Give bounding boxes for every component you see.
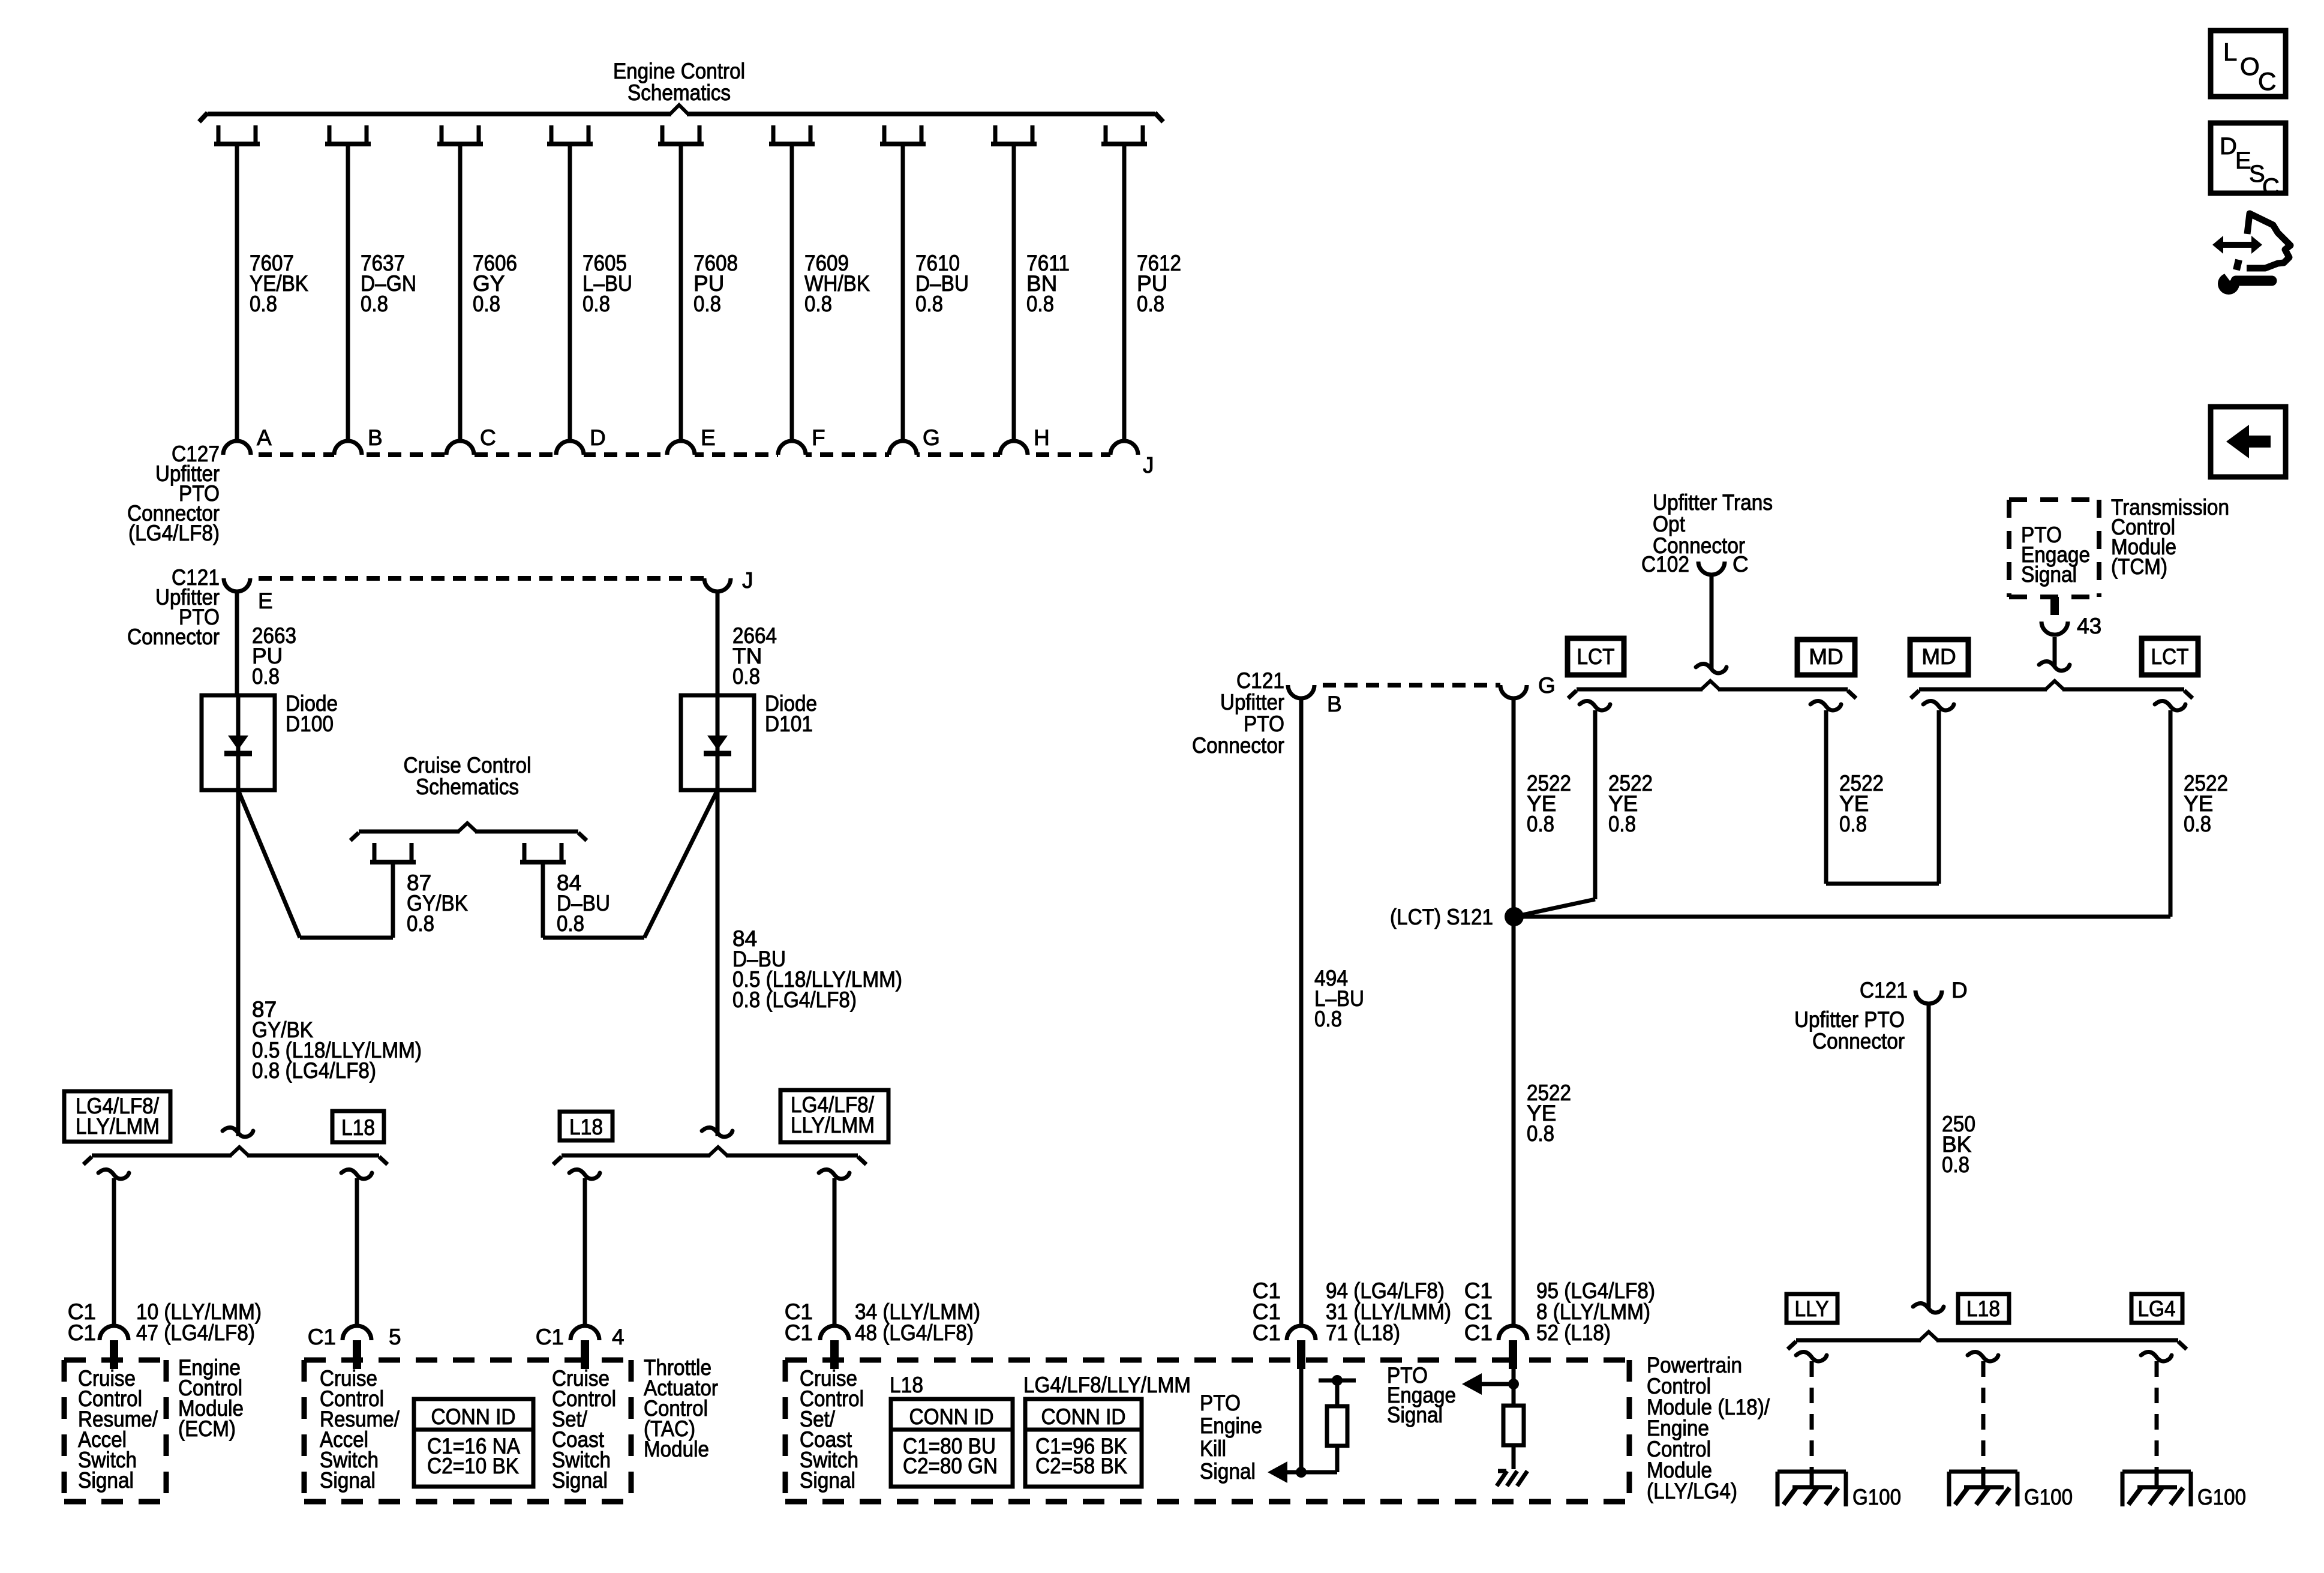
svg-text:L18: L18 (1966, 1296, 2000, 1321)
brace ECM split (92, 1154, 232, 1158)
wire segment 87 diagonal to D100 (238, 790, 300, 938)
svg-text:(ECM): (ECM) (178, 1416, 236, 1441)
wire end curl above left brace (223, 1127, 253, 1137)
dashed box PTO engage signal (TCM) (2009, 497, 2099, 502)
icon DESC box (2211, 123, 2286, 193)
svg-text:PTO: PTO (1244, 712, 1284, 736)
svg-text:0.8: 0.8 (473, 292, 500, 316)
svg-text:PTO: PTO (1200, 1391, 1241, 1415)
kill signal arrow (1268, 1461, 1287, 1483)
svg-text:J: J (1143, 453, 1154, 478)
C127 pin bump H (1000, 441, 1028, 459)
pin stub 47/10 (110, 1340, 118, 1369)
pin stub 4 (581, 1340, 589, 1369)
svg-text:0.8 (LG4/LF8): 0.8 (LG4/LF8) (252, 1058, 376, 1083)
svg-text:E: E (701, 425, 716, 450)
svg-text:0.8: 0.8 (1839, 812, 1867, 836)
CONN ID box (TAC) (414, 1399, 533, 1487)
svg-text:A: A (257, 425, 272, 450)
wire to pin 5 (355, 1178, 359, 1327)
brace upfitter trans opt (1577, 688, 1703, 692)
box LG4 (2131, 1294, 2182, 1323)
svg-text:CONN ID: CONN ID (909, 1404, 994, 1429)
C121 connector dashed line (right) (1301, 683, 1514, 688)
icon wrench (2218, 273, 2239, 295)
svg-text:Engine: Engine (1200, 1413, 1262, 1438)
svg-text:0.8: 0.8 (1527, 812, 1554, 836)
engine box L18 (left) (332, 1111, 384, 1142)
svg-text:0.8: 0.8 (361, 292, 388, 316)
svg-text:71 (L18): 71 (L18) (1326, 1320, 1400, 1345)
wire 2664 TN 0.8 (716, 592, 720, 695)
svg-text:B: B (368, 425, 383, 450)
wire 7612 PU 0.8 (pin J) (1122, 144, 1127, 442)
stub curl LCT1 (1580, 701, 1610, 710)
wire to pin 5 curl (341, 1169, 372, 1179)
engage arrow (1462, 1373, 1482, 1395)
svg-text:LCT: LCT (2151, 644, 2189, 669)
wire 84 below D101 (716, 790, 720, 1136)
svg-text:4: 4 (612, 1325, 624, 1349)
ground G100 (LLY) (1777, 1470, 1846, 1474)
bracket to engine control schematics (wire J) (1104, 125, 1108, 144)
svg-text:(LLY/LG4): (LLY/LG4) (1647, 1479, 1737, 1503)
wire 2522 YE 0.8 (G to S121 to pin) (1512, 698, 1516, 1327)
cruise control brace (359, 830, 460, 834)
dashed wire to G100 (L18) (1981, 1361, 1986, 1470)
svg-text:C: C (2258, 67, 2276, 95)
svg-text:C121: C121 (1860, 978, 1908, 1002)
C121 connector dashed line (left) (237, 576, 717, 581)
wire 7607 YE/BK 0.8 (pin A) (235, 144, 239, 442)
pin stub 71 (1297, 1340, 1305, 1369)
wire curl above right brace (2039, 661, 2070, 671)
svg-text:43: 43 (2077, 614, 2101, 638)
ground G100 (L18) (1949, 1470, 2017, 1474)
C127 pin bump A (223, 441, 251, 459)
svg-text:Kill: Kill (1200, 1436, 1226, 1461)
C121 pin bump E (224, 574, 250, 592)
svg-text:52 (L18): 52 (L18) (1536, 1320, 1611, 1345)
svg-text:C: C (1733, 552, 1749, 577)
svg-text:(TCM): (TCM) (2111, 554, 2167, 579)
C127 pin bump D (556, 441, 584, 459)
svg-text:Schematics: Schematics (627, 80, 731, 105)
bracket to engine control schematics (wire B) (328, 125, 332, 144)
brace grounds (1796, 1338, 1921, 1343)
floating bar (kill) (1319, 1379, 1356, 1383)
svg-text:G100: G100 (2197, 1485, 2246, 1509)
C121 pin bump D (1915, 986, 1942, 1004)
pin stub 52 (1509, 1340, 1517, 1369)
svg-text:MD: MD (1921, 644, 1956, 669)
C121 pin bump B (1288, 681, 1314, 698)
wire LCT2 stub to S121 line (2169, 710, 2173, 917)
pin bump 47/10 (100, 1326, 128, 1344)
svg-text:Signal: Signal (800, 1468, 855, 1493)
svg-text:Engine Control: Engine Control (613, 59, 745, 83)
dashed box cruise control switches (TAC) (304, 1358, 631, 1363)
svg-text:0.8: 0.8 (1942, 1152, 1969, 1177)
splice S121 dot (1505, 907, 1524, 926)
box LCT (second) (2142, 638, 2198, 675)
svg-text:D: D (590, 425, 606, 450)
wire 250 BK 0.8 (1927, 1004, 1931, 1308)
dashed box cruise control resume/accel switch signal (ECM) (64, 1358, 166, 1363)
svg-text:(LG4/LF8): (LG4/LF8) (128, 521, 220, 545)
resistor (engage) (1503, 1406, 1524, 1445)
stub curl ground LG4 (2141, 1352, 2172, 1361)
svg-text:C2=10 BK: C2=10 BK (427, 1454, 519, 1478)
svg-text:Connector: Connector (1812, 1029, 1905, 1053)
svg-text:C: C (480, 425, 496, 450)
bracket to cruise control (87 wire) (373, 843, 377, 860)
svg-text:Opt: Opt (1653, 512, 1686, 536)
svg-text:CONN ID: CONN ID (1041, 1404, 1126, 1429)
svg-text:0.8: 0.8 (250, 292, 277, 316)
brace TCM split (1919, 688, 2047, 692)
engine box LG4/LF8/LLY/LMM (left) (64, 1091, 170, 1142)
box LLY (1786, 1294, 1837, 1323)
svg-text:5: 5 (389, 1325, 401, 1349)
svg-text:Signal: Signal (2021, 562, 2077, 587)
wire from C102 (1710, 574, 1714, 668)
wire LCT1 stub to S121 (1593, 710, 1598, 899)
svg-text:0.8: 0.8 (1314, 1007, 1342, 1031)
svg-text:0.8: 0.8 (1527, 1121, 1554, 1146)
svg-text:F: F (812, 425, 825, 450)
svg-text:L18: L18 (341, 1115, 375, 1140)
svg-text:Connector: Connector (1192, 733, 1284, 758)
svg-text:C102: C102 (1641, 552, 1689, 577)
engine box L18 (right) (560, 1112, 612, 1140)
wire to pin 4 curl (569, 1169, 600, 1179)
svg-text:Cruise Control: Cruise Control (404, 753, 532, 778)
junction dot top (kill) (1332, 1375, 1343, 1386)
svg-text:Signal: Signal (1200, 1459, 1256, 1484)
wire to pin 4 (583, 1178, 587, 1327)
C127 pin bump C (446, 441, 474, 459)
resistor branch vertical (kill) (1335, 1380, 1340, 1472)
bracket to engine control schematics (wire E) (660, 125, 665, 144)
wire 7608 PU 0.8 (pin E) (679, 144, 683, 442)
pin bump 4 (571, 1326, 599, 1344)
box MD (first) (1797, 640, 1855, 675)
svg-text:LLY/LMM: LLY/LMM (791, 1113, 875, 1137)
chassis ground (engage) (1498, 1469, 1506, 1473)
icon connector outline (2247, 214, 2290, 268)
stub curl LCT2 (2155, 701, 2185, 710)
svg-text:C1: C1 (536, 1325, 564, 1349)
icon double arrow (2212, 236, 2262, 254)
svg-text:L18: L18 (569, 1115, 603, 1139)
wire curl above ground brace (1913, 1303, 1944, 1313)
bracket to engine control schematics (wire D) (550, 125, 554, 144)
svg-text:C121: C121 (1236, 668, 1284, 693)
stub curl ground L18 (1968, 1352, 1998, 1361)
svg-text:Signal: Signal (320, 1468, 376, 1493)
pin stub 48/34 (830, 1340, 839, 1369)
diode D100 symbol (228, 736, 248, 750)
svg-text:D: D (1951, 978, 1968, 1002)
C121 pin bump G (1500, 681, 1527, 698)
wire 7611 BN 0.8 (pin H) (1012, 144, 1016, 442)
svg-text:C2=58 BK: C2=58 BK (1035, 1454, 1127, 1478)
C127 pin bump B (334, 441, 362, 459)
wire 7605 L–BU 0.8 (pin D) (568, 144, 572, 442)
wire below resistor (engage) (1512, 1445, 1516, 1469)
svg-text:C: C (2262, 174, 2280, 200)
stub curl MD2 (1923, 701, 1954, 710)
engage arrow wire (1481, 1382, 1514, 1386)
pin bump 5 (343, 1326, 371, 1344)
wire 2663 PU 0.8 (235, 592, 239, 695)
svg-text:0.8: 0.8 (1137, 292, 1164, 316)
C127 pin bump G (889, 441, 917, 459)
wire 7610 D–BU 0.8 (pin G) (901, 144, 905, 442)
pin bump 71 (494 wire) (1287, 1326, 1316, 1344)
bracket to engine control schematics (wire F) (771, 125, 776, 144)
svg-text:0.8: 0.8 (252, 664, 280, 689)
TCM pin bump 43 (2041, 617, 2068, 635)
svg-text:47 (LG4/LF8): 47 (LG4/LF8) (136, 1320, 255, 1345)
svg-text:C1: C1 (1253, 1320, 1281, 1345)
wire 494 L-BU 0.8 (1299, 698, 1304, 1327)
svg-text:0.8: 0.8 (1608, 812, 1636, 836)
svg-text:D101: D101 (765, 712, 813, 736)
svg-text:0.8: 0.8 (1026, 292, 1054, 316)
S121 horizontal wire (1514, 915, 2170, 919)
diode D100 box (202, 695, 275, 790)
stub curl ground LLY (1796, 1352, 1827, 1361)
junction dot kill (1296, 1467, 1307, 1478)
wire to pin 48/34 curl (819, 1169, 849, 1179)
svg-text:LLY: LLY (1795, 1296, 1829, 1321)
svg-text:D: D (2220, 133, 2237, 160)
svg-text:C1: C1 (68, 1320, 96, 1345)
bracket to engine control schematics (wire G) (882, 125, 887, 144)
wire from TCM pin 43 (2053, 637, 2057, 666)
svg-text:0.8: 0.8 (582, 292, 610, 316)
svg-text:D100: D100 (286, 712, 334, 736)
junction dot engage (1508, 1379, 1519, 1389)
wire curl above LCT brace (1696, 664, 1727, 673)
wire 87 below D100 (236, 790, 241, 1136)
bracket to engine control schematics (wire C) (440, 125, 444, 144)
diode D101 box (681, 695, 754, 790)
svg-text:0.8: 0.8 (2184, 812, 2211, 836)
TCM pin stub (2050, 597, 2059, 615)
stub curl MD1 (1810, 701, 1841, 710)
pin bump 48/34 (820, 1326, 849, 1344)
svg-text:Schematics: Schematics (416, 775, 519, 799)
wire to ECM pin 47/10 (112, 1178, 116, 1327)
svg-text:Upfitter: Upfitter (1220, 690, 1284, 715)
icon LOC box (2211, 31, 2286, 97)
PTO engage wire (1512, 1358, 1516, 1406)
svg-text:Upfitter Trans: Upfitter Trans (1653, 490, 1773, 515)
CONN ID box (LG4) (1025, 1399, 1142, 1487)
svg-text:CONN ID: CONN ID (431, 1404, 516, 1429)
C127 pin bump J (1110, 441, 1138, 459)
svg-text:0.8 (LG4/LF8): 0.8 (LG4/LF8) (732, 987, 857, 1012)
diode D101 wire through box (716, 695, 720, 790)
svg-text:L: L (2223, 38, 2237, 66)
svg-text:0.8: 0.8 (557, 911, 584, 936)
svg-text:0.8: 0.8 (804, 292, 832, 316)
wire to pin 48/34 (833, 1178, 837, 1327)
brace TAC split (562, 1154, 710, 1158)
svg-text:48 (LG4/LF8): 48 (LG4/LF8) (855, 1320, 974, 1345)
svg-text:E: E (258, 589, 273, 613)
resistor (kill) (1327, 1406, 1347, 1446)
wire to ECM pin 47/10 curl (98, 1169, 129, 1179)
svg-text:Signal: Signal (552, 1468, 608, 1493)
dashed wire to G100 (LLY) (1810, 1361, 1814, 1470)
wire segment 84 horizontal (543, 936, 644, 940)
C127 connector dashed line (237, 452, 1124, 457)
icon back arrow box (2211, 407, 2286, 477)
svg-text:L18: L18 (890, 1373, 923, 1397)
PTO engine kill wire (1299, 1358, 1304, 1472)
svg-text:B: B (1327, 692, 1342, 716)
wire MD1-MD2 U (1824, 710, 1828, 884)
diode D100 wire through box (236, 695, 241, 790)
svg-text:J: J (742, 568, 753, 593)
wire 7637 D–GN 0.8 (pin B) (346, 144, 350, 442)
svg-text:H: H (1034, 425, 1050, 450)
svg-text:C1: C1 (785, 1320, 813, 1345)
svg-text:C1: C1 (308, 1325, 336, 1349)
wire end curl above right brace (702, 1127, 732, 1137)
bracket to engine control schematics (wire H) (993, 125, 998, 144)
svg-text:LLY/LMM: LLY/LMM (76, 1114, 160, 1139)
CONN ID box (L18) (891, 1399, 1013, 1487)
pin bump 52 (2522 wire) (1499, 1326, 1527, 1344)
wire 7606 GY 0.8 (pin C) (458, 144, 463, 442)
box LCT (first) (1568, 638, 1624, 675)
svg-text:G: G (923, 425, 940, 450)
bus brace to engine control schematics (208, 112, 671, 116)
kill signal horizontal wire (1276, 1470, 1337, 1475)
svg-text:O: O (2240, 52, 2260, 80)
pin stub 5 (353, 1340, 361, 1369)
box L18 (grounds) (1958, 1294, 2009, 1323)
wire segment 87 horizontal (300, 936, 393, 940)
dashed wire to G100 (LG4) (2155, 1361, 2159, 1470)
svg-text:Upfitter PTO: Upfitter PTO (1794, 1007, 1905, 1032)
C127 pin bump E (667, 441, 695, 459)
box MD (second) (1910, 640, 1968, 675)
svg-text:LG4/LF8/LLY/LMM: LG4/LF8/LLY/LMM (1023, 1373, 1191, 1397)
svg-text:G100: G100 (1852, 1485, 1901, 1509)
ground G100 (LG4) (2122, 1470, 2191, 1474)
svg-text:Signal: Signal (1387, 1403, 1443, 1427)
svg-text:Module: Module (644, 1437, 709, 1461)
bracket to engine control schematics (wire A) (217, 125, 221, 144)
diode D101 symbol (707, 736, 728, 750)
svg-text:Signal: Signal (78, 1468, 134, 1493)
svg-text:(LCT) S121: (LCT) S121 (1390, 905, 1493, 929)
svg-text:G: G (1538, 673, 1556, 698)
svg-text:MD: MD (1809, 644, 1843, 669)
svg-text:C2=80 GN: C2=80 GN (903, 1454, 998, 1478)
engine box LG4/LF8/LLY/LMM (right) (780, 1090, 888, 1142)
svg-text:G100: G100 (2024, 1485, 2073, 1509)
dashed box powertrain/engine control module (785, 1358, 1629, 1363)
wire 87 GY/BK 0.8 from cruise control (391, 864, 395, 938)
svg-text:0.8: 0.8 (915, 292, 943, 316)
wire 84 D-BU 0.8 from cruise control (541, 864, 545, 938)
C127 pin bump F (778, 441, 806, 459)
svg-text:C1: C1 (1464, 1320, 1493, 1345)
bracket to cruise control (84 wire) (523, 843, 527, 860)
svg-text:LG4: LG4 (2138, 1296, 2176, 1321)
wire 7609 WH/BK 0.8 (pin F) (790, 144, 794, 442)
C121 pin bump J (704, 574, 731, 592)
svg-text:0.8: 0.8 (407, 911, 434, 936)
svg-text:0.8: 0.8 (693, 292, 721, 316)
C102 pin bump C (1698, 557, 1725, 575)
svg-text:0.8: 0.8 (732, 664, 760, 689)
svg-text:Connector: Connector (127, 625, 220, 649)
wire segment 84 diagonal to D101 (644, 790, 717, 938)
svg-text:LCT: LCT (1577, 644, 1615, 669)
